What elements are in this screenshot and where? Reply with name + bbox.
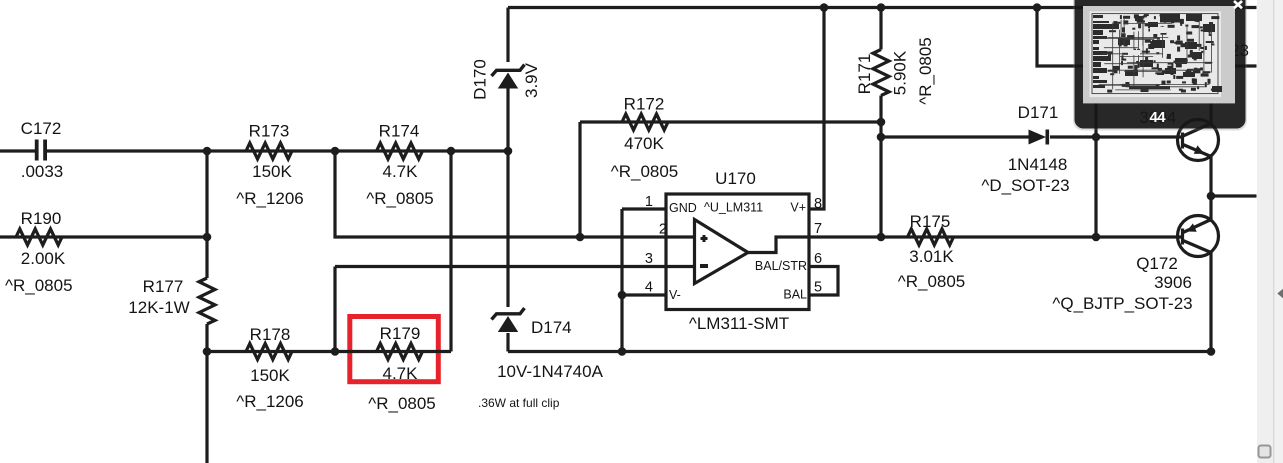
svg-text:U170: U170 — [715, 169, 756, 188]
svg-text:^D_SOT-23: ^D_SOT-23 — [981, 176, 1069, 195]
svg-text:3: 3 — [645, 251, 653, 267]
svg-text:R171: R171 — [855, 54, 874, 95]
svg-text:D174: D174 — [531, 318, 572, 337]
svg-text:^R_0805: ^R_0805 — [916, 37, 935, 105]
svg-text:3906: 3906 — [1154, 273, 1192, 292]
svg-text:.0033: .0033 — [21, 162, 64, 181]
svg-text:44: 44 — [1149, 109, 1166, 126]
svg-text:6: 6 — [814, 251, 822, 267]
svg-text:10V-1N4740A: 10V-1N4740A — [497, 362, 604, 381]
svg-text:BAL/STR: BAL/STR — [755, 259, 807, 273]
svg-text:5.90K: 5.90K — [890, 50, 909, 95]
svg-text:R177: R177 — [143, 277, 184, 296]
svg-text:^R_0805: ^R_0805 — [611, 162, 679, 181]
svg-text:^Q_BJTP_SOT-23: ^Q_BJTP_SOT-23 — [1052, 294, 1192, 313]
svg-text:V+: V+ — [790, 201, 806, 215]
svg-text:12K-1W: 12K-1W — [128, 298, 189, 317]
svg-text:^R_0805: ^R_0805 — [366, 189, 434, 208]
svg-text:.36W at full clip: .36W at full clip — [478, 396, 560, 410]
svg-text:R172: R172 — [624, 95, 665, 114]
svg-text:^LM311-SMT: ^LM311-SMT — [689, 314, 789, 333]
svg-text:150K: 150K — [250, 366, 290, 385]
svg-text:Q172: Q172 — [1136, 254, 1178, 273]
svg-text:3.01K: 3.01K — [909, 247, 954, 266]
svg-text:^R_1206: ^R_1206 — [236, 392, 304, 411]
svg-text:R178: R178 — [250, 325, 291, 344]
svg-text:^R_0805: ^R_0805 — [898, 272, 966, 291]
svg-text:470K: 470K — [624, 134, 664, 153]
svg-text:5: 5 — [814, 280, 822, 296]
svg-text:7: 7 — [814, 221, 822, 237]
svg-text:R175: R175 — [910, 212, 951, 231]
svg-text:2.00K: 2.00K — [21, 249, 66, 268]
svg-text:D170: D170 — [470, 59, 489, 100]
svg-text:R179: R179 — [380, 324, 421, 343]
svg-text:^R_0805: ^R_0805 — [368, 394, 436, 413]
svg-text:V-: V- — [669, 288, 681, 302]
svg-text:3.9V: 3.9V — [522, 62, 541, 98]
svg-text:C172: C172 — [21, 119, 62, 138]
svg-text:4.7K: 4.7K — [383, 162, 419, 181]
svg-text:D171: D171 — [1018, 103, 1059, 122]
svg-text:BAL: BAL — [783, 288, 807, 302]
svg-text:^R_1206: ^R_1206 — [236, 189, 304, 208]
svg-text:R190: R190 — [21, 209, 62, 228]
svg-text:R174: R174 — [379, 122, 420, 141]
svg-text:^R_0805: ^R_0805 — [5, 276, 73, 295]
svg-text:^U_LM311: ^U_LM311 — [704, 201, 763, 215]
svg-text:150K: 150K — [252, 162, 292, 181]
svg-text:GND: GND — [669, 201, 697, 215]
svg-text:4: 4 — [645, 280, 653, 296]
svg-text:1N4148: 1N4148 — [1008, 155, 1068, 174]
svg-text:2: 2 — [659, 222, 667, 238]
svg-text:8: 8 — [814, 196, 822, 212]
svg-text:1: 1 — [645, 194, 653, 210]
svg-text:R173: R173 — [249, 122, 290, 141]
svg-text:4.7K: 4.7K — [383, 364, 419, 383]
